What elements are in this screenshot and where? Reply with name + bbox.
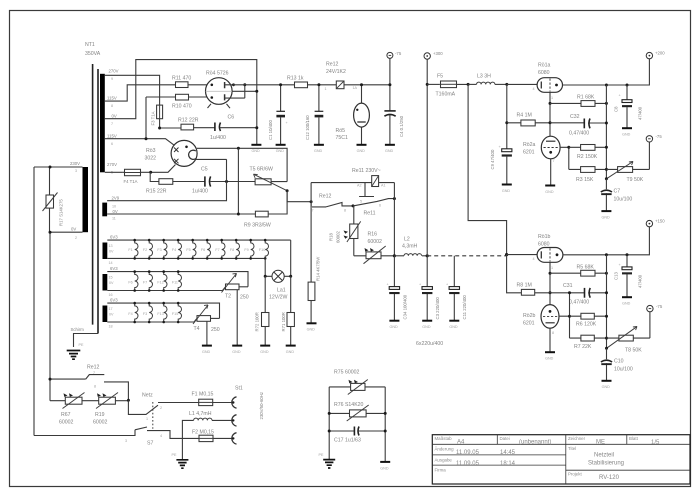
varistor R18 60002 <box>329 206 361 256</box>
svg-text:PE: PE <box>172 453 177 457</box>
heater loops group3 <box>128 302 181 324</box>
connector St1 pin2 <box>232 415 237 426</box>
resistor R2 150K <box>569 145 607 161</box>
resistor R13 1k <box>287 76 308 88</box>
inductor L1 4,7mH <box>182 411 232 459</box>
terminal -75 left <box>387 51 402 58</box>
svg-text:C1 10/400: C1 10/400 <box>268 120 273 140</box>
svg-text:18: 18 <box>109 325 113 329</box>
svg-text:R7 22K: R7 22K <box>574 344 592 350</box>
svg-text:Rö1a: Rö1a <box>538 63 551 69</box>
tube Roe4 5726 <box>206 71 245 109</box>
wire 115V pin8 to R11 <box>105 85 176 101</box>
node F5 out <box>467 83 470 86</box>
svg-text:1A: 1A <box>353 86 358 90</box>
svg-text:T2: T2 <box>225 294 231 300</box>
switch S7 pole2 <box>34 427 199 447</box>
svg-text:Stabilisierung: Stabilisierung <box>588 461 624 467</box>
resistor R4 1M <box>507 113 550 126</box>
varistor R75 60002 <box>329 370 385 462</box>
svg-text:F11: F11 <box>172 281 178 285</box>
transformer secondary HV winding bar <box>100 74 105 173</box>
trimmer T8 50K <box>607 327 650 354</box>
svg-text:0,47/400: 0,47/400 <box>569 131 589 137</box>
svg-text:T160mA: T160mA <box>436 92 456 98</box>
node plate rail <box>243 83 246 86</box>
trimmer T2 250 <box>222 274 249 301</box>
wire Roe3 anode output <box>197 148 287 181</box>
GND under Roe2b <box>545 352 555 360</box>
svg-text:4: 4 <box>160 434 162 438</box>
svg-text:ME: ME <box>596 440 605 446</box>
GND under C11 <box>449 321 459 329</box>
svg-text:PE: PE <box>319 453 324 457</box>
svg-text:C32: C32 <box>570 114 580 120</box>
svg-text:R1 68K: R1 68K <box>577 95 595 101</box>
svg-text:0V: 0V <box>109 250 114 254</box>
svg-text:L3 3H: L3 3H <box>477 74 491 80</box>
svg-text:18:14: 18:14 <box>500 461 516 467</box>
svg-text:115V: 115V <box>107 96 117 101</box>
svg-text:(unbenannt): (unbenannt) <box>519 440 551 446</box>
tube Roe2b 6201 <box>523 305 559 335</box>
GND under R14 <box>307 323 317 331</box>
svg-text:0V: 0V <box>109 313 114 317</box>
lamp La1 12V/2W <box>265 240 291 300</box>
svg-text:10u/100: 10u/100 <box>614 367 633 373</box>
capacitor C11 220/400 <box>446 256 467 321</box>
svg-text:R16: R16 <box>368 232 378 238</box>
svg-text:0V: 0V <box>71 227 76 232</box>
svg-text:GND: GND <box>602 385 611 389</box>
fuse F2 M0,15 <box>192 430 232 442</box>
svg-text:6: 6 <box>111 142 113 146</box>
svg-text:Zeichner: Zeichner <box>568 436 586 441</box>
svg-text:1u/400: 1u/400 <box>192 189 208 195</box>
svg-text:C13: C13 <box>614 272 619 280</box>
wire Roe2b cathode to GND <box>549 328 551 352</box>
transformer heater winding bar 2 <box>103 274 108 291</box>
svg-text:GND: GND <box>202 350 211 354</box>
svg-text:60002: 60002 <box>59 420 74 426</box>
svg-text:GND: GND <box>545 190 554 194</box>
capacitor C8 47/400 <box>614 85 643 128</box>
svg-text:GND: GND <box>502 189 511 193</box>
wire F4 to Roe3 anode <box>151 165 176 173</box>
svg-text:9: 9 <box>111 77 113 81</box>
svg-text:+: + <box>619 94 621 98</box>
svg-text:+150: +150 <box>655 219 665 224</box>
node rail R1R2 vertical <box>605 84 608 87</box>
svg-text:230V: 230V <box>70 161 80 166</box>
capacitor C32 0.47/400 <box>550 114 606 137</box>
svg-text:47/400: 47/400 <box>638 106 643 120</box>
node R1 right <box>605 102 608 105</box>
svg-text:R15 22R: R15 22R <box>146 189 167 195</box>
node rail x606 lower <box>605 253 608 256</box>
node Re11 blade out <box>393 197 396 200</box>
title block frame <box>432 435 690 484</box>
resistor R8 1M <box>507 255 550 296</box>
node C4 <box>388 83 391 86</box>
svg-text:T8 50K: T8 50K <box>625 348 642 354</box>
svg-text:F10: F10 <box>259 248 265 252</box>
wire 2V9 pin11 to R9 <box>107 213 255 215</box>
switch S7 actuator dashes <box>152 402 154 429</box>
svg-text:60002: 60002 <box>336 230 341 243</box>
terminal +300 <box>424 51 443 59</box>
capacitor C5 1u/400 <box>192 167 255 195</box>
svg-text:115V: 115V <box>107 134 117 139</box>
svg-text:Re12: Re12 <box>87 365 100 371</box>
svg-text:1/5: 1/5 <box>651 440 660 446</box>
svg-text:R71 100R: R71 100R <box>281 312 286 331</box>
svg-text:Rö4 5726: Rö4 5726 <box>206 71 229 77</box>
svg-text:Datei: Datei <box>500 436 510 441</box>
svg-text:1: 1 <box>551 96 553 100</box>
wire Roe3 cathode to filament <box>196 158 226 160</box>
svg-text:T5 6R/6W: T5 6R/6W <box>250 167 273 173</box>
svg-text:+: + <box>619 263 621 267</box>
svg-text:Re11 230V~: Re11 230V~ <box>352 168 381 174</box>
svg-text:F2 M0,15: F2 M0,15 <box>192 430 214 436</box>
svg-text:7: 7 <box>553 159 555 163</box>
resistor R11 470 <box>172 76 207 88</box>
svg-text:3: 3 <box>75 169 77 173</box>
terminal -75 lower <box>647 304 663 312</box>
svg-text:Schirm: Schirm <box>71 327 85 332</box>
svg-text:R76 S14K20: R76 S14K20 <box>334 402 364 408</box>
svg-text:+200: +200 <box>655 51 665 56</box>
wire 0V centre tap to ground line <box>105 60 257 145</box>
resistor R15 22R <box>146 172 205 194</box>
svg-text:T4: T4 <box>194 326 200 332</box>
wire Re11 coil left drop <box>310 183 312 202</box>
capacitor C6 1u/400 <box>210 115 257 142</box>
svg-text:NT1: NT1 <box>85 42 95 48</box>
svg-text:+: + <box>499 145 501 149</box>
B+ rail to F5 <box>427 83 439 85</box>
node T8 wiper C10 <box>605 347 608 350</box>
svg-text:F7: F7 <box>143 281 147 285</box>
svg-text:6080: 6080 <box>538 242 550 248</box>
resistor R9 3R3/5W <box>244 191 287 229</box>
svg-text:A4: A4 <box>457 440 465 446</box>
svg-text:A1: A1 <box>381 184 386 188</box>
earth PE (Schirm) <box>67 343 84 359</box>
wire Roe2b plate node <box>559 293 570 338</box>
node C6 to ground line <box>255 126 258 129</box>
svg-text:11: 11 <box>112 217 116 221</box>
resistor R5 68K <box>550 265 606 277</box>
node C1 <box>279 83 282 86</box>
capacitor C10 10u/100 <box>601 348 633 380</box>
svg-text:GND: GND <box>385 149 394 153</box>
transformer primary winding bar <box>83 167 89 232</box>
svg-text:C7: C7 <box>614 189 621 195</box>
node C32 right <box>605 122 608 125</box>
svg-text:6V3: 6V3 <box>110 266 118 271</box>
svg-text:8: 8 <box>552 331 554 335</box>
GND under Roe2a <box>545 186 555 195</box>
svg-text:C9 47/400: C9 47/400 <box>490 149 495 169</box>
svg-text:F6: F6 <box>201 248 205 252</box>
wire T5 node to Re12 contact <box>287 191 311 202</box>
svg-text:11.09.05: 11.09.05 <box>456 450 480 456</box>
varistor R17 S14K275 <box>43 167 64 232</box>
svg-text:Rö2a: Rö2a <box>523 142 536 148</box>
svg-text:F4: F4 <box>172 248 176 252</box>
earth PE R75 section <box>319 453 336 468</box>
relay coil Re11 230V~ <box>311 168 394 188</box>
node lamp right <box>289 275 292 278</box>
transformer 2V9 winding bar <box>102 203 107 217</box>
svg-text:3: 3 <box>125 439 127 443</box>
lower rail to Roe1b <box>507 254 537 256</box>
GND under C8 <box>622 128 632 136</box>
svg-text:GND: GND <box>422 325 431 329</box>
node grid C32 <box>549 121 552 124</box>
svg-text:GND: GND <box>314 149 323 153</box>
tube Roe1b 6080 <box>533 234 563 270</box>
fuse F5 T160mA <box>436 74 469 98</box>
svg-text:Rö3: Rö3 <box>146 148 156 154</box>
capacitor C3 220/400 <box>419 256 440 321</box>
wire T8 to -75 lower <box>649 312 651 338</box>
svg-text:4: 4 <box>533 257 535 261</box>
svg-text:230V/50-60Hz: 230V/50-60Hz <box>259 392 264 419</box>
svg-text:60002: 60002 <box>368 239 383 245</box>
node R2 right <box>605 146 608 149</box>
svg-text:GND: GND <box>232 350 241 354</box>
svg-text:8: 8 <box>111 104 113 108</box>
svg-text:2: 2 <box>160 406 162 410</box>
resistor R3 15K <box>569 167 607 183</box>
node R19 switch junction <box>127 399 130 402</box>
svg-text:Rö1b: Rö1b <box>538 234 551 240</box>
svg-text:R3 15K: R3 15K <box>576 177 594 183</box>
svg-text:R10 470: R10 470 <box>172 104 192 110</box>
svg-text:F4 T1A: F4 T1A <box>124 179 138 184</box>
node R6 right <box>605 315 608 318</box>
wire Re11 right vertical to L2 junction <box>393 183 395 256</box>
node primary bottom <box>49 231 52 234</box>
GND under T4 <box>202 346 212 354</box>
svg-text:13: 13 <box>109 244 113 248</box>
svg-text:250: 250 <box>211 327 220 333</box>
resistor R7 22K <box>570 335 607 350</box>
resistor R10 470 <box>172 94 207 109</box>
svg-text:6201: 6201 <box>523 321 535 327</box>
svg-text:F13: F13 <box>157 312 163 316</box>
svg-text:GND: GND <box>276 149 285 153</box>
svg-text:10u/100: 10u/100 <box>614 197 633 203</box>
svg-text:270V: 270V <box>109 69 119 74</box>
node C17 right <box>384 430 387 433</box>
relay contact Re12 pole2 <box>50 365 128 401</box>
primary 0V wire <box>50 232 83 401</box>
svg-text:Re12: Re12 <box>319 194 332 200</box>
svg-text:6201: 6201 <box>523 150 535 156</box>
svg-text:Titel: Titel <box>568 446 576 451</box>
svg-text:F3: F3 <box>143 312 147 316</box>
svg-text:6V3: 6V3 <box>110 298 118 303</box>
svg-text:C4 0.1/250: C4 0.1/250 <box>399 115 404 137</box>
resistor R12 22R <box>178 118 215 130</box>
svg-text:1: 1 <box>146 417 148 421</box>
svg-text:C10: C10 <box>614 359 624 365</box>
svg-text:GND: GND <box>357 149 366 153</box>
wire 2V9 pin10 riser <box>107 159 226 201</box>
node R7 right <box>605 337 608 340</box>
svg-text:GND: GND <box>622 133 631 137</box>
heater loops group1 <box>128 239 268 260</box>
transformer heater winding bar 1 <box>103 243 108 260</box>
wire 115V pin6 to R10 and Roe3 <box>105 97 177 147</box>
svg-text:PE: PE <box>79 343 84 347</box>
svg-text:R5 68K: R5 68K <box>577 265 595 271</box>
wire Roe1b cathode rail to +150 <box>563 227 650 255</box>
trimmer T5 6R/6W <box>250 167 288 191</box>
wire 270V pin5 to F4 <box>105 171 122 173</box>
svg-text:15: 15 <box>109 276 113 280</box>
GND under C13 <box>622 297 632 305</box>
vertical node line x606 upper <box>605 85 607 179</box>
title block Projekt <box>568 472 620 482</box>
title block row3 Ausgabe <box>435 458 516 468</box>
svg-text:F6: F6 <box>128 281 132 285</box>
svg-text:F15: F15 <box>172 312 178 316</box>
svg-text:F3: F3 <box>157 248 161 252</box>
secondary tap labels HV <box>107 69 119 175</box>
svg-text:R2 150K: R2 150K <box>577 154 598 160</box>
varistor R76 S14K20 <box>329 402 385 421</box>
svg-text:Rö5: Rö5 <box>336 128 346 134</box>
svg-text:6x220u/400: 6x220u/400 <box>416 341 443 347</box>
terminal +200 <box>646 51 665 59</box>
GND under C7 <box>601 211 611 219</box>
wire T2 wiper to GND <box>236 290 238 346</box>
svg-text:C12 100/160: C12 100/160 <box>305 115 310 140</box>
node ground line centre pin <box>255 90 258 93</box>
svg-text:-75: -75 <box>656 304 663 309</box>
node R9 left <box>237 213 240 216</box>
capacitor C17 1u1/63 <box>329 427 385 444</box>
svg-text:1: 1 <box>551 266 553 270</box>
GND under R75 section <box>380 462 390 471</box>
node anode to R9 riser <box>237 147 240 150</box>
wire C9 branch <box>506 84 508 184</box>
svg-text:+: + <box>387 283 389 287</box>
node T5 wiper <box>286 189 289 192</box>
svg-text:F1: F1 <box>128 248 132 252</box>
2V9 winding labels <box>112 196 120 221</box>
wire Roe1a grid drop <box>549 92 551 136</box>
GND under R72 <box>260 346 270 354</box>
inductor L3 3H <box>468 74 507 85</box>
GND under ground line <box>251 145 261 153</box>
svg-text:R11 470: R11 470 <box>172 76 191 82</box>
svg-text:C34 100/400: C34 100/400 <box>403 294 408 319</box>
heater loops group2 <box>128 270 181 292</box>
svg-text:0V: 0V <box>109 281 114 285</box>
svg-text:St1: St1 <box>235 386 243 392</box>
node Re12 out / R18 top <box>352 204 355 207</box>
capacitor C4 0.1/250 <box>384 59 403 145</box>
node F3 to R12 <box>158 127 161 130</box>
svg-text:0,47/400: 0,47/400 <box>569 300 589 306</box>
svg-text:2: 2 <box>75 236 77 240</box>
svg-text:Re11: Re11 <box>364 211 376 217</box>
primary 230V wire <box>34 167 83 436</box>
svg-text:C31: C31 <box>563 283 573 289</box>
svg-text:250: 250 <box>240 295 249 301</box>
wire +300 drop <box>426 59 428 256</box>
GND under C34 <box>389 321 399 329</box>
relay coil Re12 24V/1K2 <box>325 62 358 92</box>
terminal +150 <box>646 219 665 227</box>
node T9 wiper C7 <box>605 177 608 180</box>
svg-text:L2: L2 <box>404 237 410 243</box>
svg-text:R67: R67 <box>61 412 71 418</box>
svg-text:12V/2W: 12V/2W <box>269 295 288 301</box>
node R3 right <box>605 168 608 171</box>
svg-text:6080: 6080 <box>538 70 550 76</box>
svg-text:F9: F9 <box>244 248 248 252</box>
node grid C31 <box>549 291 552 294</box>
node Roe5 top <box>360 83 363 86</box>
svg-text:60002: 60002 <box>93 420 108 426</box>
switch S7 pole1 <box>128 393 193 422</box>
relay contact Re12 pole1 <box>311 194 353 213</box>
svg-text:5: 5 <box>360 200 362 204</box>
node lower rail junction <box>505 253 508 256</box>
wire F5 node to lower rail <box>468 84 507 254</box>
svg-text:GND: GND <box>252 149 261 153</box>
svg-text:GND: GND <box>307 328 316 332</box>
svg-text:Netz: Netz <box>142 393 153 399</box>
tube Roe2a 6201 <box>523 136 560 163</box>
wire R12 net from F3 <box>160 127 181 129</box>
svg-text:C8: C8 <box>614 106 619 112</box>
connector St1 pin1 <box>232 386 243 409</box>
svg-text:C11 220/400: C11 220/400 <box>462 295 467 320</box>
trimmer T4 250 <box>193 305 220 333</box>
capacitor C7 10u/100 <box>601 179 633 211</box>
node R5 right <box>605 272 608 275</box>
heater group 2 winding rails <box>107 266 248 297</box>
heater group 1 winding rails <box>107 235 290 266</box>
svg-text:4,3mH: 4,3mH <box>402 244 418 250</box>
varistor R67 60002 <box>50 393 99 426</box>
svg-text:+: + <box>286 121 288 125</box>
wire L3 to Roe1a <box>507 83 537 85</box>
GND under R71 <box>286 346 296 354</box>
svg-text:Ausgabe: Ausgabe <box>435 458 453 463</box>
svg-text:11.09.05: 11.09.05 <box>456 461 480 467</box>
svg-text:R12 22R: R12 22R <box>178 118 199 124</box>
varistor R16 60002 <box>354 232 395 264</box>
svg-text:R4 1M: R4 1M <box>517 113 532 119</box>
svg-text:R19: R19 <box>95 412 105 418</box>
wire -75 rail top <box>233 84 390 86</box>
GND under C9 <box>502 185 512 194</box>
svg-text:A2: A2 <box>357 184 362 188</box>
varistor R19 60002 <box>93 393 128 426</box>
node +300 rail <box>426 83 429 86</box>
svg-text:Firma: Firma <box>435 468 447 473</box>
node lamp left <box>264 275 267 278</box>
